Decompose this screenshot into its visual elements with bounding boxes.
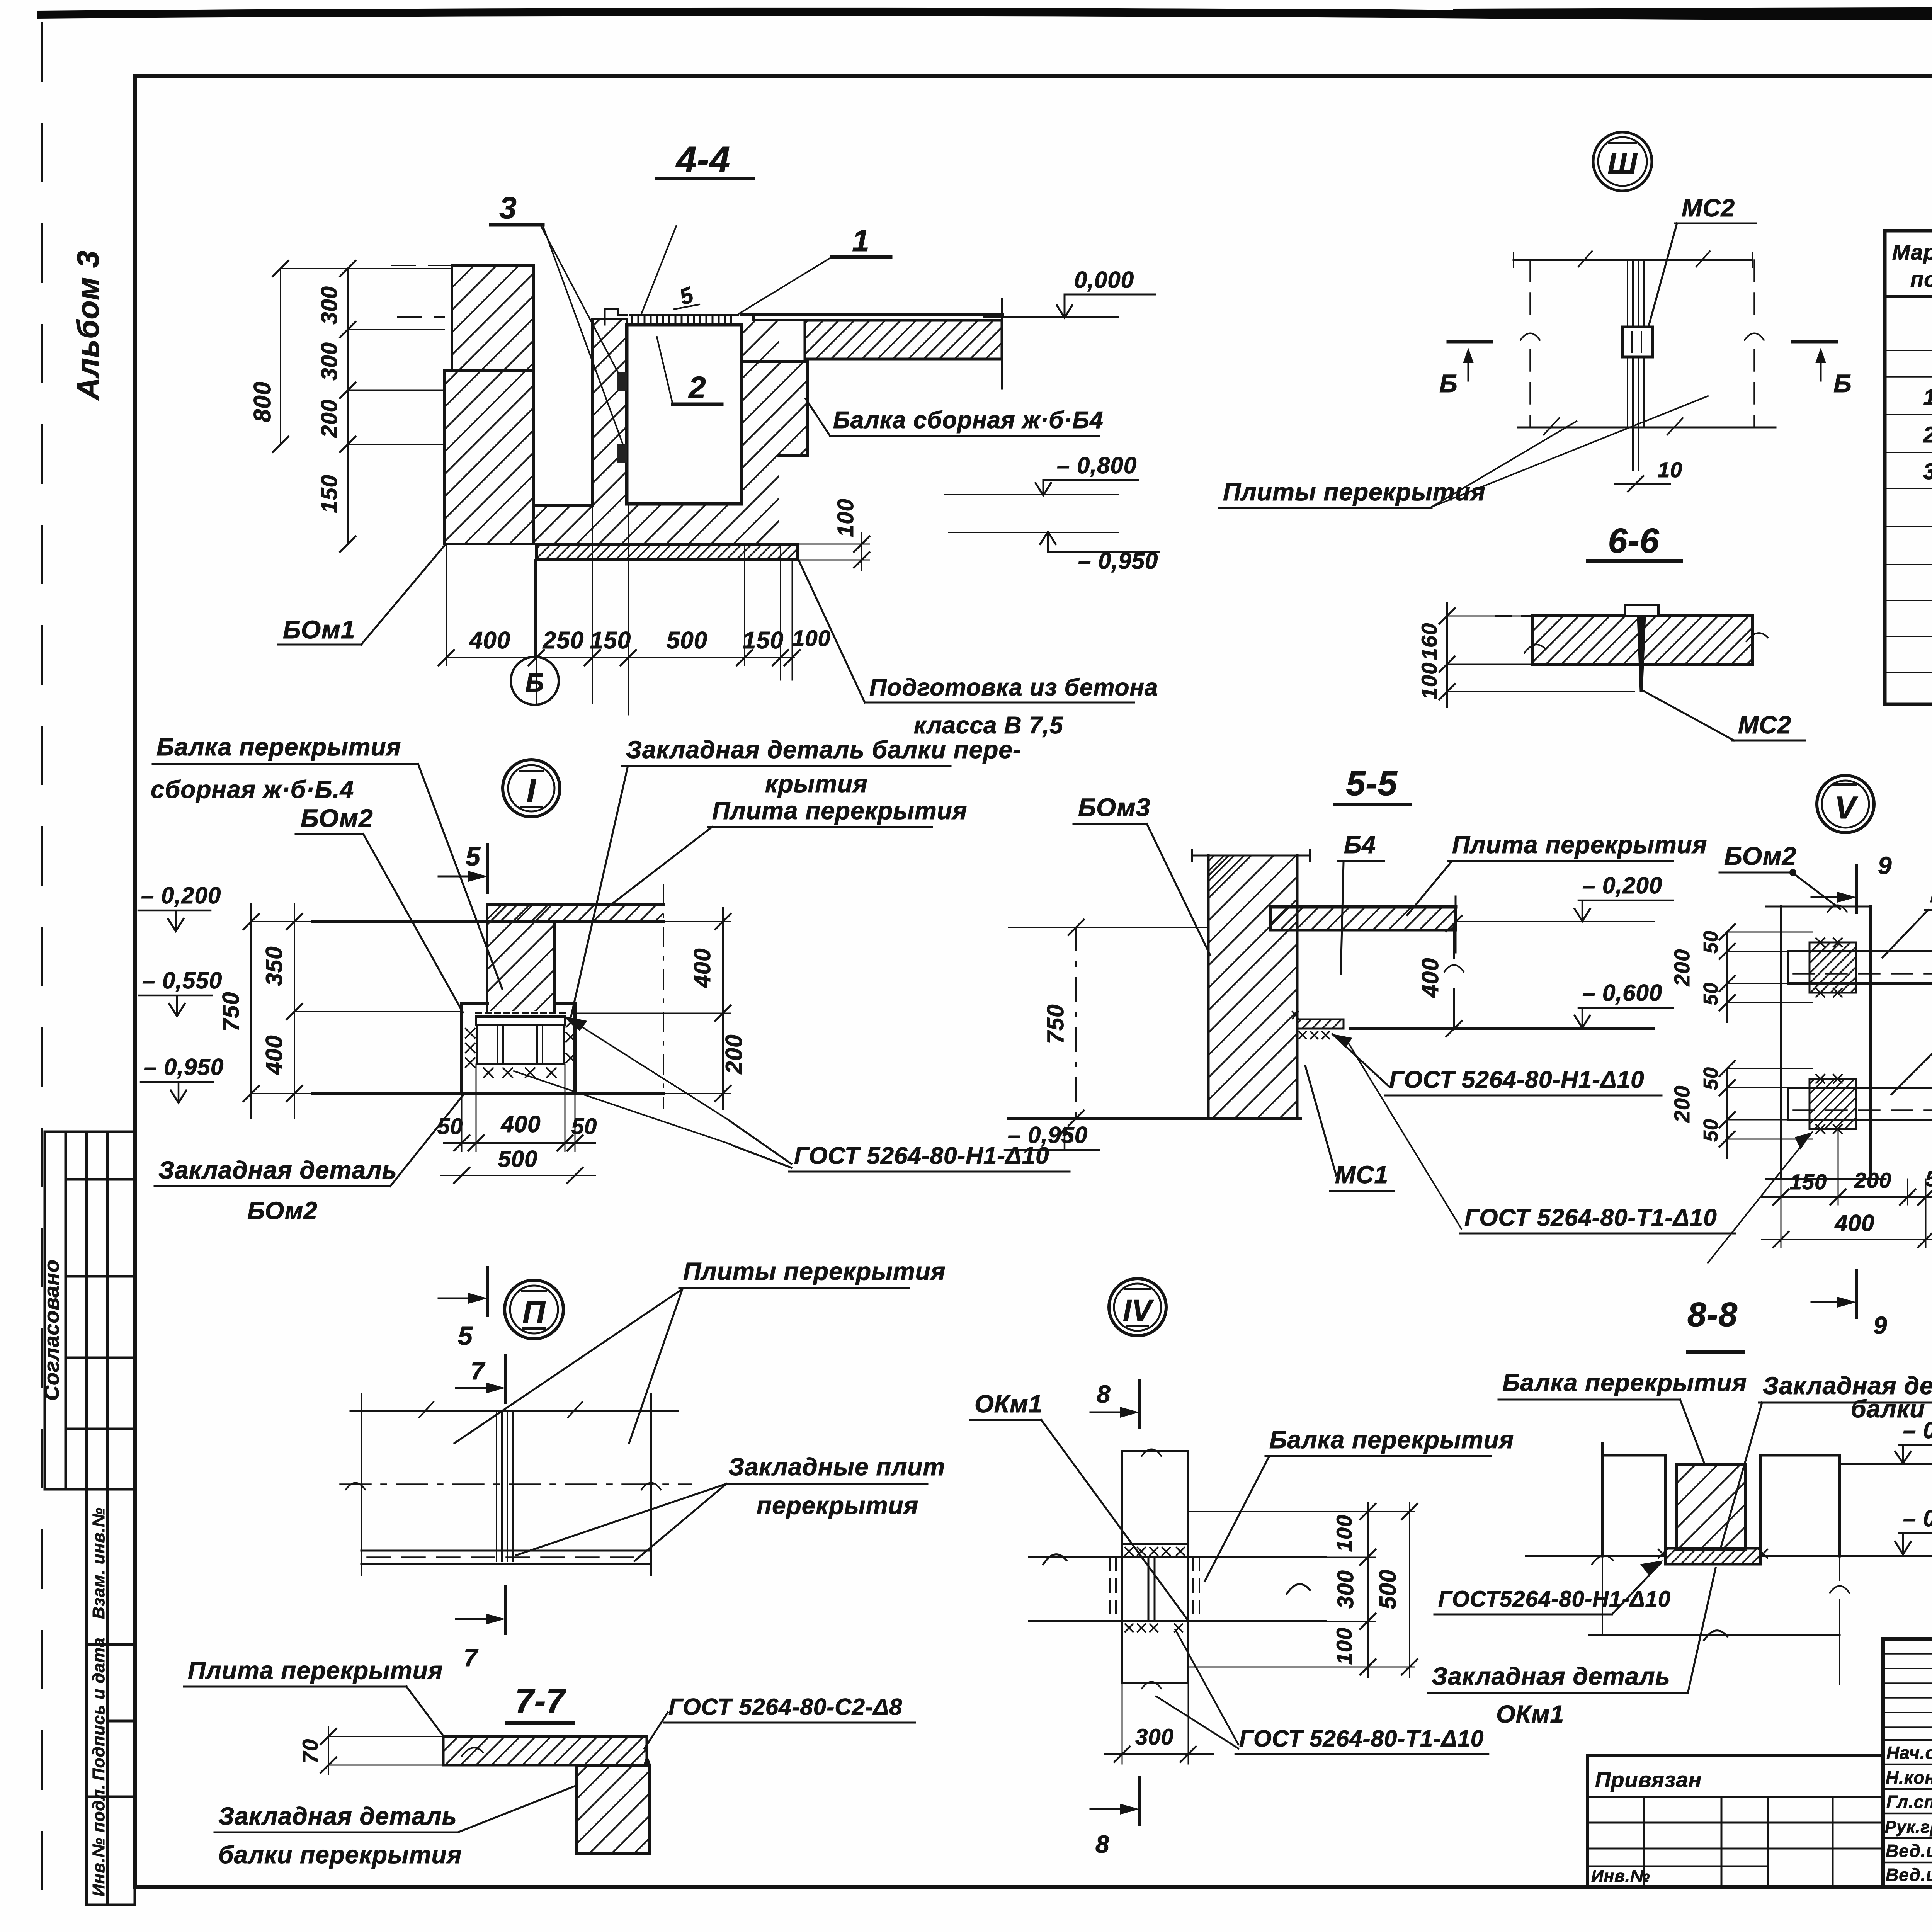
right level lines <box>1840 1464 1932 1556</box>
svg-text:сборная ж·б·Б.4: сборная ж·б·Б.4 <box>151 776 354 803</box>
dims left upper 50/200/50 <box>1726 932 1728 1022</box>
svg-text:7: 7 <box>464 1644 479 1672</box>
svg-text:Рук.груп.: Рук.груп. <box>1885 1818 1932 1837</box>
svg-text:Плита перекрытия: Плита перекрытия <box>1452 831 1707 859</box>
svg-text:Балка перекрытия: Балка перекрытия <box>156 733 401 761</box>
left margin table: Согласовано <box>45 1132 135 1489</box>
anchor assembly <box>476 1012 565 1014</box>
anchor leg tapered <box>1638 616 1645 692</box>
scan artifact: top black band <box>37 8 1932 20</box>
svg-text:Альбом 3: Альбом 3 <box>71 250 105 401</box>
ГОСТ leader arrows <box>514 1019 731 1145</box>
svg-text:800: 800 <box>249 381 276 422</box>
svg-text:Взам. инв.№: Взам. инв.№ <box>89 1507 108 1619</box>
svg-text:3: 3 <box>499 190 517 225</box>
svg-text:П: П <box>522 1295 546 1330</box>
dashed edge lines <box>1530 260 1754 427</box>
svg-text:200: 200 <box>317 399 342 438</box>
svg-text:МС2: МС2 <box>1682 194 1735 222</box>
svg-text:5: 5 <box>466 842 481 871</box>
svg-text:200: 200 <box>1670 949 1694 986</box>
МС7 lower: anchor block <box>1810 1079 1856 1129</box>
monolith mass center+bottom <box>534 319 779 544</box>
left margin table: Взам.инв.№ <box>87 1489 135 1645</box>
svg-text:8-8: 8-8 <box>1687 1295 1738 1333</box>
dim 500 <box>440 1175 595 1176</box>
svg-text:10: 10 <box>1658 457 1682 482</box>
svg-text:400: 400 <box>1834 1210 1874 1236</box>
svg-text:400: 400 <box>500 1111 541 1137</box>
bottom line 5-5 <box>1009 1117 1300 1120</box>
dims bottom 150/200/50 and 400 <box>1781 1129 1926 1247</box>
svg-text:250: 250 <box>543 627 584 654</box>
svg-text:150: 150 <box>590 627 631 654</box>
anchor squares on pier <box>617 372 627 391</box>
dim row bottom 400/250/150/500/150/100 <box>446 657 794 658</box>
corner angle with welds <box>1297 1019 1344 1029</box>
section mark 9 bottom <box>1855 1270 1858 1318</box>
svg-text:50: 50 <box>571 1114 597 1139</box>
svg-text:750: 750 <box>1043 1004 1068 1044</box>
svg-text:Балка перекрытия: Балка перекрытия <box>1502 1369 1747 1396</box>
svg-text:7: 7 <box>471 1357 486 1385</box>
svg-text:100: 100 <box>1332 1628 1356 1665</box>
svg-text:160: 160 <box>1417 623 1441 660</box>
svg-text:2: 2 <box>688 370 706 405</box>
left margin table: Подпись и дата <box>87 1645 135 1797</box>
bottom x marks <box>1125 1624 1182 1632</box>
anchor plate МС2 top <box>1625 605 1658 616</box>
svg-text:ГОСТ 5264-80-Н1-Δ10: ГОСТ 5264-80-Н1-Δ10 <box>1389 1066 1645 1093</box>
svg-text:Закладная деталь: Закладная деталь <box>1432 1662 1670 1690</box>
svg-text:0,000: 0,000 <box>1074 267 1134 293</box>
plate vertical lines <box>1628 260 1644 427</box>
svg-text:– 0,950: – 0,950 <box>144 1054 224 1080</box>
leader Плиты перекрытия (node III) <box>1432 396 1708 507</box>
node circle I <box>503 760 560 817</box>
slab 5-5 <box>1270 907 1456 930</box>
МС7 upper plate <box>1788 951 1932 983</box>
dim 400/200 right <box>722 908 724 1109</box>
svg-text:9: 9 <box>1873 1311 1888 1339</box>
svg-text:– 0‚600: – 0‚600 <box>1903 1505 1932 1531</box>
svg-text:Б: Б <box>525 668 544 697</box>
л line bottom <box>1589 1634 1840 1636</box>
bottom lines <box>1526 1555 1840 1557</box>
top joint line <box>350 1410 678 1412</box>
svg-text:200: 200 <box>1670 1085 1694 1123</box>
svg-text:6-6: 6-6 <box>1608 522 1659 560</box>
svg-text:300: 300 <box>1135 1725 1174 1750</box>
break marks on beam lines <box>1043 1554 1310 1594</box>
svg-text:БОм3: БОм3 <box>1078 793 1151 821</box>
MC2 square <box>1622 327 1653 357</box>
column hatched <box>487 905 554 1011</box>
svg-text:Б: Б <box>1439 369 1458 398</box>
svg-text:500: 500 <box>498 1146 537 1172</box>
svg-text:500: 500 <box>1375 1569 1401 1609</box>
dim 750 <box>250 904 252 1119</box>
beam verticals <box>1122 1451 1188 1683</box>
svg-text:100: 100 <box>792 626 831 651</box>
svg-text:– 0‚200: – 0‚200 <box>1903 1417 1932 1443</box>
slab band <box>487 905 663 922</box>
svg-text:перекрытия: перекрытия <box>757 1492 918 1519</box>
svg-text:200: 200 <box>721 1034 747 1074</box>
trench white gap outline <box>532 265 535 500</box>
node circle IV <box>1109 1279 1166 1336</box>
svg-text:Закладные плит: Закладные плит <box>728 1453 945 1481</box>
beam (Балка сборная Б4) hatched <box>742 362 808 544</box>
weld corner <box>643 1754 651 1765</box>
svg-text:Закладная деталь балки пере-: Закладная деталь балки пере- <box>626 736 1021 764</box>
svg-text:3: 3 <box>1923 459 1932 484</box>
dim 800 vertical <box>280 269 281 444</box>
svg-text:2: 2 <box>1923 422 1932 447</box>
svg-text:крытия: крытия <box>765 770 868 798</box>
svg-text:7-7: 7-7 <box>515 1682 566 1720</box>
thin upper rows <box>1883 1654 1932 1727</box>
node circle V <box>1817 776 1874 833</box>
svg-text:9: 9 <box>1878 852 1892 879</box>
svg-text:750: 750 <box>218 992 244 1031</box>
svg-text:400: 400 <box>689 948 715 988</box>
precast slab right <box>753 313 1002 316</box>
svg-text:400: 400 <box>261 1035 287 1075</box>
svg-text:Вед.инж.: Вед.инж. <box>1886 1865 1932 1885</box>
svg-text:Согласовано: Согласовано <box>40 1259 63 1401</box>
svg-text:200: 200 <box>1854 1168 1891 1192</box>
svg-text:Б4: Б4 <box>1344 831 1376 859</box>
МС7 upper: anchor block <box>1810 942 1856 993</box>
svg-text:Привязан: Привязан <box>1595 1767 1702 1792</box>
left wall 8-8 <box>1602 1443 1665 1556</box>
fold dashed line left <box>41 23 43 1917</box>
dim 100 right of base plate <box>861 533 862 570</box>
signature rows <box>1883 1740 1932 1862</box>
svg-text:Балка перекрытия: Балка перекрытия <box>1269 1426 1514 1454</box>
svg-text:Подготовка из бетона: Подготовка из бетона <box>869 674 1158 701</box>
level line -0,200 <box>1009 927 1208 928</box>
panel 2 (shield Щ1) <box>627 325 742 504</box>
svg-text:150: 150 <box>743 627 784 654</box>
svg-text:Марка,: Марка, <box>1892 240 1932 264</box>
node circle III <box>1593 132 1652 191</box>
Б section marks <box>1448 340 1492 344</box>
slab 6-6 <box>1532 616 1752 664</box>
svg-text:1: 1 <box>1923 385 1932 410</box>
svg-text:БОм1: БОм1 <box>283 615 355 644</box>
svg-text:– 0,800: – 0,800 <box>1057 452 1137 478</box>
svg-text:V: V <box>1835 790 1858 825</box>
svg-text:100: 100 <box>1332 1515 1356 1552</box>
svg-text:– 0,550: – 0,550 <box>142 968 222 993</box>
bottom wall line <box>1766 1178 1886 1180</box>
svg-text:Плита перекрытия: Плита перекрытия <box>712 797 967 825</box>
svg-text:ГОСТ 5264-80-Т1-Δ10: ГОСТ 5264-80-Т1-Δ10 <box>1464 1204 1717 1231</box>
top joint line <box>1514 259 1752 261</box>
dims 160/100 <box>1446 603 1448 707</box>
weld x marks <box>466 1018 575 1077</box>
svg-text:балки перекрытия: балки перекрытия <box>218 1841 462 1869</box>
svg-text:БОм2: БОм2 <box>247 1197 318 1225</box>
svg-text:– 0,600: – 0,600 <box>1582 980 1662 1006</box>
svg-text:300: 300 <box>317 286 342 325</box>
dims left lower 50/200/50 <box>1726 1068 1728 1158</box>
plate vertical lines <box>497 1411 513 1561</box>
dash level line left of wall <box>392 265 452 266</box>
svg-text:5: 5 <box>458 1321 473 1350</box>
svg-text:МС7: МС7 <box>1930 880 1932 908</box>
svg-text:Закладная деталь: Закладная деталь <box>158 1156 397 1184</box>
middle beam hatched <box>1677 1464 1746 1550</box>
svg-text:50: 50 <box>1700 1067 1722 1090</box>
right wall 8-8 <box>1760 1455 1840 1556</box>
svg-text:Нач.отд.: Нач.отд. <box>1886 1743 1932 1763</box>
svg-text:100: 100 <box>833 498 858 537</box>
svg-text:Инв.№ подл.: Инв.№ подл. <box>89 1784 108 1896</box>
centerline dash-dot <box>340 1483 692 1485</box>
dim 350/400 <box>294 904 295 1119</box>
wall lines <box>1781 906 1871 1179</box>
svg-text:Подпись и дата: Подпись и дата <box>89 1637 108 1781</box>
svg-text:ГОСТ 5264-80-С2-Δ8: ГОСТ 5264-80-С2-Δ8 <box>668 1694 903 1720</box>
dim 70 <box>328 1727 329 1774</box>
svg-text:400: 400 <box>1417 957 1443 998</box>
svg-text:БОм2: БОм2 <box>1724 842 1797 870</box>
svg-text:поз: поз <box>1910 267 1932 291</box>
plate below slab + dim 10 <box>1633 427 1638 471</box>
bottom plate with welds <box>1665 1548 1760 1564</box>
svg-text:– 0,200: – 0,200 <box>141 883 221 908</box>
svg-text:1: 1 <box>852 223 870 258</box>
wall top line <box>1192 855 1310 857</box>
svg-text:БОм2: БОм2 <box>301 804 373 832</box>
vertical dim/ext <box>1839 1556 1840 1685</box>
svg-text:Инв.№: Инв.№ <box>1591 1867 1650 1886</box>
svg-text:5-5: 5-5 <box>1346 764 1398 803</box>
svg-text:МС1: МС1 <box>1335 1161 1388 1189</box>
table frame <box>1885 231 1932 704</box>
node circle II <box>505 1280 563 1339</box>
dim 400 (5-5) <box>1453 923 1455 1029</box>
dim chain 300/300/200/150 <box>347 269 349 544</box>
horizontal beam lines <box>1029 1557 1325 1621</box>
dims below 50/400/50 <box>462 1064 575 1151</box>
svg-text:8: 8 <box>1095 1830 1110 1858</box>
svg-text:Плиты перекрытия: Плиты перекрытия <box>1223 478 1486 506</box>
svg-text:ОКм1: ОКм1 <box>975 1390 1043 1418</box>
dims right 100/300/100 and 500 <box>1367 1503 1369 1677</box>
inner plate verticals <box>1148 1557 1155 1621</box>
side edges <box>361 1394 651 1575</box>
section mark 8 bottom <box>1138 1777 1141 1825</box>
leader ГОСТ Т1 to lower block <box>1708 1132 1812 1263</box>
svg-text:– 0,950: – 0,950 <box>1008 1122 1088 1148</box>
svg-text:150: 150 <box>1790 1170 1827 1194</box>
svg-text:50: 50 <box>1700 930 1722 954</box>
svg-text:Вед.инж.: Вед.инж. <box>1886 1841 1932 1861</box>
svg-text:Ш: Ш <box>1607 146 1638 180</box>
dashed extension slab end <box>663 885 664 1108</box>
svg-text:50: 50 <box>1925 1167 1932 1191</box>
wall 5-5 hatched <box>1208 855 1297 1118</box>
svg-text:150: 150 <box>317 474 342 513</box>
dim 750 (5-5) <box>1075 927 1077 1118</box>
svg-text:400: 400 <box>469 627 510 654</box>
svg-text:300: 300 <box>317 342 342 381</box>
svg-text:ГОСТ 5264-80-Т1-Δ10: ГОСТ 5264-80-Т1-Δ10 <box>1239 1726 1484 1752</box>
left margin table: Инв.№ подл. <box>87 1797 135 1905</box>
МС7 lower plate <box>1788 1088 1932 1120</box>
svg-text:300: 300 <box>1333 1570 1358 1609</box>
svg-text:500: 500 <box>667 627 707 654</box>
svg-text:ОКм1: ОКм1 <box>1496 1700 1564 1728</box>
svg-text:50: 50 <box>1700 982 1722 1005</box>
wall upper (hatched) <box>452 265 534 371</box>
svg-text:350: 350 <box>261 946 287 986</box>
svg-text:70: 70 <box>298 1739 322 1764</box>
section mark 7 bottom <box>504 1586 507 1634</box>
svg-text:Плита перекрытия: Плита перекрытия <box>188 1656 443 1684</box>
notch left of strip <box>605 309 627 325</box>
beam 7-7 <box>576 1765 649 1854</box>
axis circle Б <box>534 560 536 657</box>
svg-text:100: 100 <box>1417 662 1441 699</box>
svg-text:8: 8 <box>1097 1380 1111 1408</box>
wall lower block (hatched) <box>444 371 534 544</box>
embedded tub БОм2 <box>462 1003 575 1094</box>
title block frame <box>1883 1639 1932 1887</box>
svg-text:4-4: 4-4 <box>675 139 730 180</box>
bottom slab line <box>313 1092 663 1095</box>
base plate (podgotovka) <box>536 544 798 560</box>
slab 7-7 <box>443 1736 647 1765</box>
svg-text:IV: IV <box>1123 1293 1154 1327</box>
svg-text:Закладная деталь: Закладная деталь <box>218 1802 457 1830</box>
svg-text:50: 50 <box>1700 1119 1722 1142</box>
top cap + x marks <box>1122 1543 1188 1545</box>
svg-text:Н.контр.: Н.контр. <box>1886 1767 1932 1787</box>
level -0,600 line <box>1350 1027 1654 1030</box>
svg-text:50: 50 <box>437 1114 463 1139</box>
svg-text:Балка сборная ж·б·Б4: Балка сборная ж·б·Б4 <box>833 407 1104 434</box>
embedded strip pos1 (serrated) <box>630 315 738 324</box>
svg-text:Б: Б <box>1833 369 1852 398</box>
svg-text:I: I <box>527 772 537 809</box>
svg-text:– 0,200: – 0,200 <box>1582 872 1662 898</box>
svg-text:класса В 7,5: класса В 7,5 <box>914 712 1063 739</box>
svg-text:Гл.спец.: Гл.спец. <box>1886 1792 1932 1812</box>
bottom plate lines <box>361 1551 651 1564</box>
svg-text:МС2: МС2 <box>1738 711 1791 739</box>
dashed verticals <box>1110 1557 1199 1621</box>
svg-text:Плиты перекрытия: Плиты перекрытия <box>683 1257 946 1285</box>
dim 300 bottom <box>1122 1683 1188 1764</box>
bottom joint line <box>1518 427 1776 429</box>
